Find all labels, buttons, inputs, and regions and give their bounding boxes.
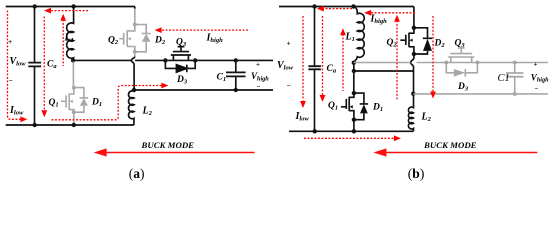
transistor Q3 gray (b) — [448, 48, 474, 63]
inductor L2 (b) — [408, 94, 413, 132]
current path vertical D2 right (b) — [432, 16, 434, 92]
transistor Q2 (b) — [400, 28, 414, 54]
svg-text:C1: C1 — [498, 73, 510, 84]
current path loop V_low (b) — [303, 16, 394, 138]
current path top arrow to Ca (a) — [48, 10, 88, 12]
wire Q2 drain lead gray (a) — [134, 9, 136, 25]
current path vertical L1 up (b) — [342, 34, 344, 91]
arrowhead down I_low (b) — [300, 101, 306, 108]
transistor Q1 (b) — [341, 93, 354, 120]
arrow buck mode (b) — [373, 148, 537, 156]
svg-text:+: + — [534, 61, 538, 69]
svg-text:−: − — [535, 85, 539, 93]
junction dot Q1 at bottom rail (a) — [72, 123, 76, 127]
wire middle node A to Q3 (a) — [73, 59, 273, 61]
wire left rail lower (b) — [314, 70, 316, 132]
capacitor Ca (b) — [308, 66, 321, 69]
wire bottom rail (b) — [289, 130, 414, 132]
junction dot Q1 drain (a) — [72, 86, 76, 90]
diode D1 gray (a) — [74, 88, 88, 113]
current path vertical up L1 (a) — [62, 20, 64, 67]
arrowhead I_high left (b) — [364, 10, 371, 16]
wire jog Q2 source to L2 (a) — [131, 56, 134, 90]
diode D2 gray (a) — [135, 25, 151, 52]
junction dot Q3 left (a) — [163, 58, 167, 62]
svg-text:−: − — [287, 81, 291, 90]
capacitor Ca (a) — [28, 63, 41, 67]
wire middle black (b) — [354, 70, 414, 72]
current path loop V_low (a) — [8, 11, 22, 120]
junction dot L1 bottom node A (a) — [71, 58, 75, 62]
junction dot C1 bottom (b) — [513, 92, 517, 96]
wire L2 vertical upper (b) — [413, 71, 415, 94]
wire middle gray (b) — [354, 62, 548, 64]
wire left rail lower (a) — [34, 67, 36, 125]
svg-text:+: + — [256, 60, 260, 68]
arrowhead down at rail (a) — [41, 110, 47, 117]
svg-text:BUCK MODE: BUCK MODE — [141, 140, 195, 150]
svg-text:−: − — [9, 76, 13, 85]
svg-text:(b): (b) — [408, 166, 425, 181]
diode D3 gray (b) — [446, 63, 477, 77]
junction dot L2 top (b) — [411, 92, 415, 96]
wire output bottom gray (b) — [413, 93, 548, 95]
junction dot L1 top (a) — [71, 4, 75, 8]
diode D1 (b) — [354, 93, 368, 120]
junction dot top-left rail (a) — [33, 4, 37, 8]
inductor L2 (a) — [129, 90, 134, 125]
wire L1 bottom to Q1 (b) — [353, 63, 355, 93]
junction dot L1 top (b) — [351, 4, 355, 8]
current path loop Q1 L2 (a) — [52, 86, 163, 120]
node V_low plus terminal (a) — [34, 7, 36, 63]
svg-text:(a): (a) — [129, 166, 145, 181]
junction dot C1 top (b) — [513, 61, 517, 65]
junction dot Q1 source (a) — [72, 110, 76, 114]
diode D3 (a) — [165, 60, 195, 72]
arrowhead down Ca (b) — [320, 95, 326, 102]
transistor Q1 gray (a) — [61, 88, 74, 113]
junction dot Q2 source (b) — [412, 52, 416, 56]
current path vertical Ca right (b) — [322, 16, 324, 96]
arrowhead down D2 right (b) — [430, 92, 436, 99]
junction dot L1 bottom (b) — [352, 61, 356, 65]
inductor L1 (a) — [67, 7, 74, 61]
svg-text:+: + — [8, 37, 12, 46]
svg-text:+: + — [287, 39, 291, 48]
current path vertical Q2 left up (b) — [396, 21, 398, 101]
wire top rail (a) — [6, 6, 135, 8]
junction dot Q1 at rail (b) — [352, 129, 356, 133]
junction dot Q2 drain (a) — [133, 23, 137, 27]
junction dot Q3 right (a) — [193, 58, 197, 62]
junction dot C1 top (a) — [234, 58, 238, 62]
transistor Q3 (a) — [171, 47, 191, 61]
wire Q1 source to rail (b) — [353, 120, 355, 132]
arrowhead I_high left (a) — [155, 27, 162, 33]
arrow buck mode (a) — [94, 148, 255, 156]
junction dot Q2 source (a) — [133, 50, 137, 54]
diode D2 (b) — [414, 28, 432, 54]
arrowhead right D3 loop (a) — [161, 83, 168, 89]
junction dot Q1 drain (b) — [352, 91, 356, 95]
capacitor C1 gray (b) — [506, 63, 523, 94]
wire bottom rail (a) — [6, 124, 134, 126]
current path vertical at Ca right (a) — [43, 17, 45, 110]
svg-text:−: − — [257, 83, 261, 91]
wire output bottom (a) — [134, 89, 273, 91]
wire Q2 source to jog gray (a) — [134, 52, 136, 57]
arrowhead up Q2 left (b) — [394, 15, 400, 22]
arrowhead top left (b) — [317, 6, 324, 12]
junction dot Q2 drain (b) — [412, 26, 416, 30]
wire node A to Q1 gray (a) — [72, 62, 74, 88]
arrowhead up L1 (b) — [340, 28, 346, 35]
capacitor C1 (a) — [226, 60, 246, 90]
junction dot mid wire left (b) — [352, 69, 356, 73]
junction dot C1 bottom (a) — [234, 88, 238, 92]
junction dot L2 top (a) — [132, 88, 136, 92]
current path top arrow (b) — [322, 8, 352, 10]
wire Q2 drain lead (a) — [134, 7, 136, 10]
arrowhead up L1 (a) — [60, 14, 66, 21]
arrowhead bottom loop right (b) — [394, 135, 401, 141]
junction dot Q3 right (b) — [475, 61, 479, 65]
current path I_high arrow (b) — [370, 12, 415, 14]
junction dot rail bottom (b) — [313, 129, 317, 133]
wire jog Q2 source to L2 (b) — [411, 54, 414, 71]
wire left rail upper (b) — [314, 7, 316, 66]
junction dot bottom rail at Ca (a) — [33, 123, 37, 127]
junction dot Q3 left (b) — [444, 61, 448, 65]
current path I_high arrow (a) — [160, 29, 248, 31]
inductor L1 (b) — [354, 7, 365, 63]
transistor Q2 gray (a) — [119, 25, 135, 52]
arrowhead I_low right (a) — [20, 116, 27, 122]
wire Q1 source to rail gray (a) — [73, 112, 75, 124]
wire top rail (b) — [279, 6, 414, 8]
svg-text:BUCK MODE: BUCK MODE — [423, 140, 477, 150]
junction dot Q1 source (b) — [352, 118, 356, 122]
wire Q2 drain vertical (b) — [413, 7, 415, 28]
arrowhead top left (a) — [44, 8, 51, 14]
node rail top dot (b) — [312, 4, 316, 8]
